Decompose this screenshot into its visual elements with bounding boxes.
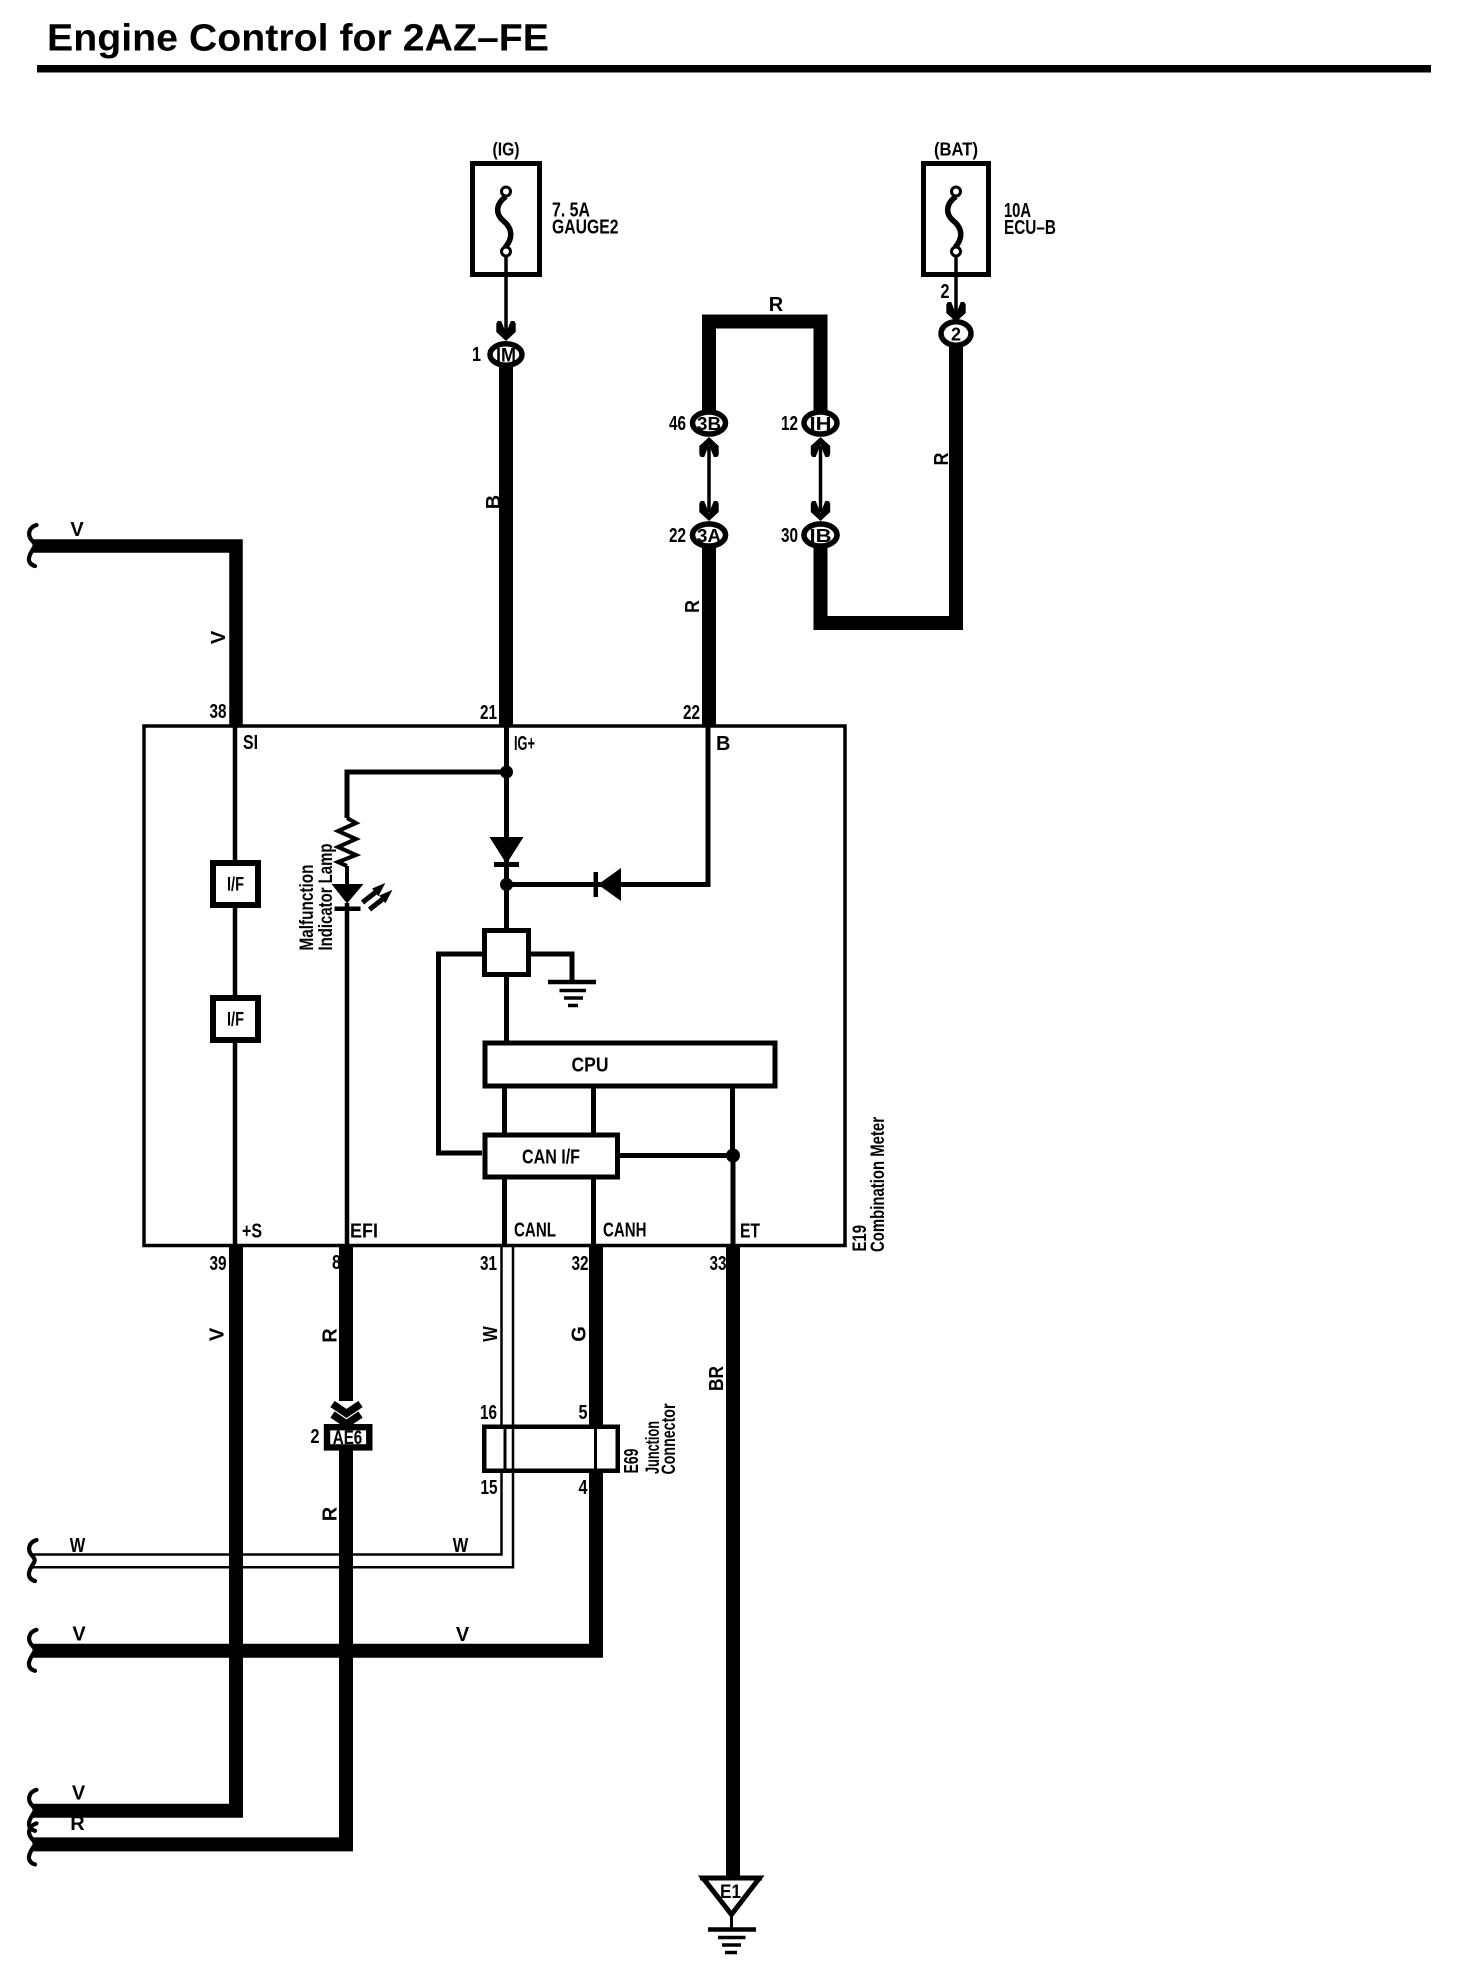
svg-text:39: 39: [210, 1253, 227, 1275]
svg-text:GAUGE2: GAUGE2: [552, 217, 619, 239]
svg-text:BR: BR: [706, 1366, 728, 1391]
svg-text:38: 38: [210, 701, 227, 723]
svg-text:2: 2: [951, 325, 961, 345]
svg-text:IB: IB: [810, 526, 832, 546]
svg-text:IH: IH: [810, 414, 832, 434]
svg-text:1: 1: [472, 344, 481, 366]
svg-text:Connector: Connector: [659, 1403, 680, 1474]
svg-text:B: B: [483, 495, 505, 509]
svg-text:33: 33: [710, 1253, 727, 1275]
svg-text:R: R: [931, 452, 953, 465]
svg-text:46: 46: [669, 413, 686, 435]
svg-text:22: 22: [669, 525, 686, 547]
svg-text:V: V: [72, 1783, 86, 1805]
svg-text:I/F: I/F: [227, 875, 244, 896]
svg-text:(BAT): (BAT): [934, 140, 978, 160]
svg-text:16: 16: [480, 1402, 497, 1424]
svg-text:R: R: [769, 294, 784, 316]
svg-text:5: 5: [579, 1402, 588, 1424]
svg-text:ECU–B: ECU–B: [1004, 217, 1056, 239]
svg-text:R: R: [320, 1506, 342, 1521]
svg-text:ET: ET: [740, 1221, 760, 1243]
svg-text:AE6: AE6: [333, 1428, 363, 1449]
svg-text:B: B: [716, 733, 730, 755]
svg-text:CANL: CANL: [514, 1220, 556, 1242]
svg-text:Indicator Lamp: Indicator Lamp: [316, 844, 337, 951]
svg-text:CANH: CANH: [603, 1220, 647, 1242]
svg-text:30: 30: [781, 525, 798, 547]
svg-text:CPU: CPU: [572, 1055, 609, 1077]
svg-text:4: 4: [579, 1477, 589, 1499]
svg-text:E1: E1: [720, 1882, 741, 1903]
svg-text:G: G: [569, 1326, 591, 1342]
svg-text:21: 21: [480, 702, 497, 724]
svg-text:W: W: [480, 1326, 502, 1342]
svg-text:IM: IM: [496, 346, 516, 367]
svg-text:V: V: [456, 1624, 470, 1646]
svg-text:W: W: [70, 1535, 86, 1557]
svg-text:22: 22: [683, 702, 700, 724]
svg-text:+S: +S: [242, 1221, 262, 1243]
svg-text:15: 15: [481, 1477, 498, 1499]
svg-text:CAN I/F: CAN I/F: [522, 1147, 580, 1169]
svg-text:Engine Control for 2AZ–FE: Engine Control for 2AZ–FE: [47, 18, 549, 60]
svg-text:V: V: [207, 1327, 229, 1341]
svg-text:3A: 3A: [697, 526, 721, 546]
svg-text:Malfunction: Malfunction: [297, 865, 318, 951]
svg-text:2: 2: [311, 1426, 320, 1448]
svg-text:V: V: [72, 1624, 86, 1646]
svg-text:I/F: I/F: [227, 1010, 244, 1031]
svg-text:R: R: [682, 600, 704, 613]
svg-text:3B: 3B: [697, 414, 721, 434]
svg-text:R: R: [320, 1328, 342, 1343]
svg-text:32: 32: [572, 1253, 589, 1275]
svg-text:W: W: [453, 1535, 469, 1557]
svg-text:IG+: IG+: [514, 733, 535, 755]
svg-text:E69: E69: [621, 1449, 643, 1474]
svg-text:31: 31: [480, 1253, 497, 1275]
svg-text:SI: SI: [243, 732, 258, 754]
svg-text:12: 12: [781, 413, 798, 435]
svg-text:R: R: [70, 1813, 85, 1835]
svg-text:V: V: [208, 630, 230, 644]
svg-text:V: V: [70, 519, 84, 541]
svg-text:EFI: EFI: [350, 1221, 378, 1243]
svg-text:(IG): (IG): [493, 140, 520, 160]
svg-text:2: 2: [941, 281, 950, 303]
svg-text:Combination Meter: Combination Meter: [868, 1117, 889, 1252]
